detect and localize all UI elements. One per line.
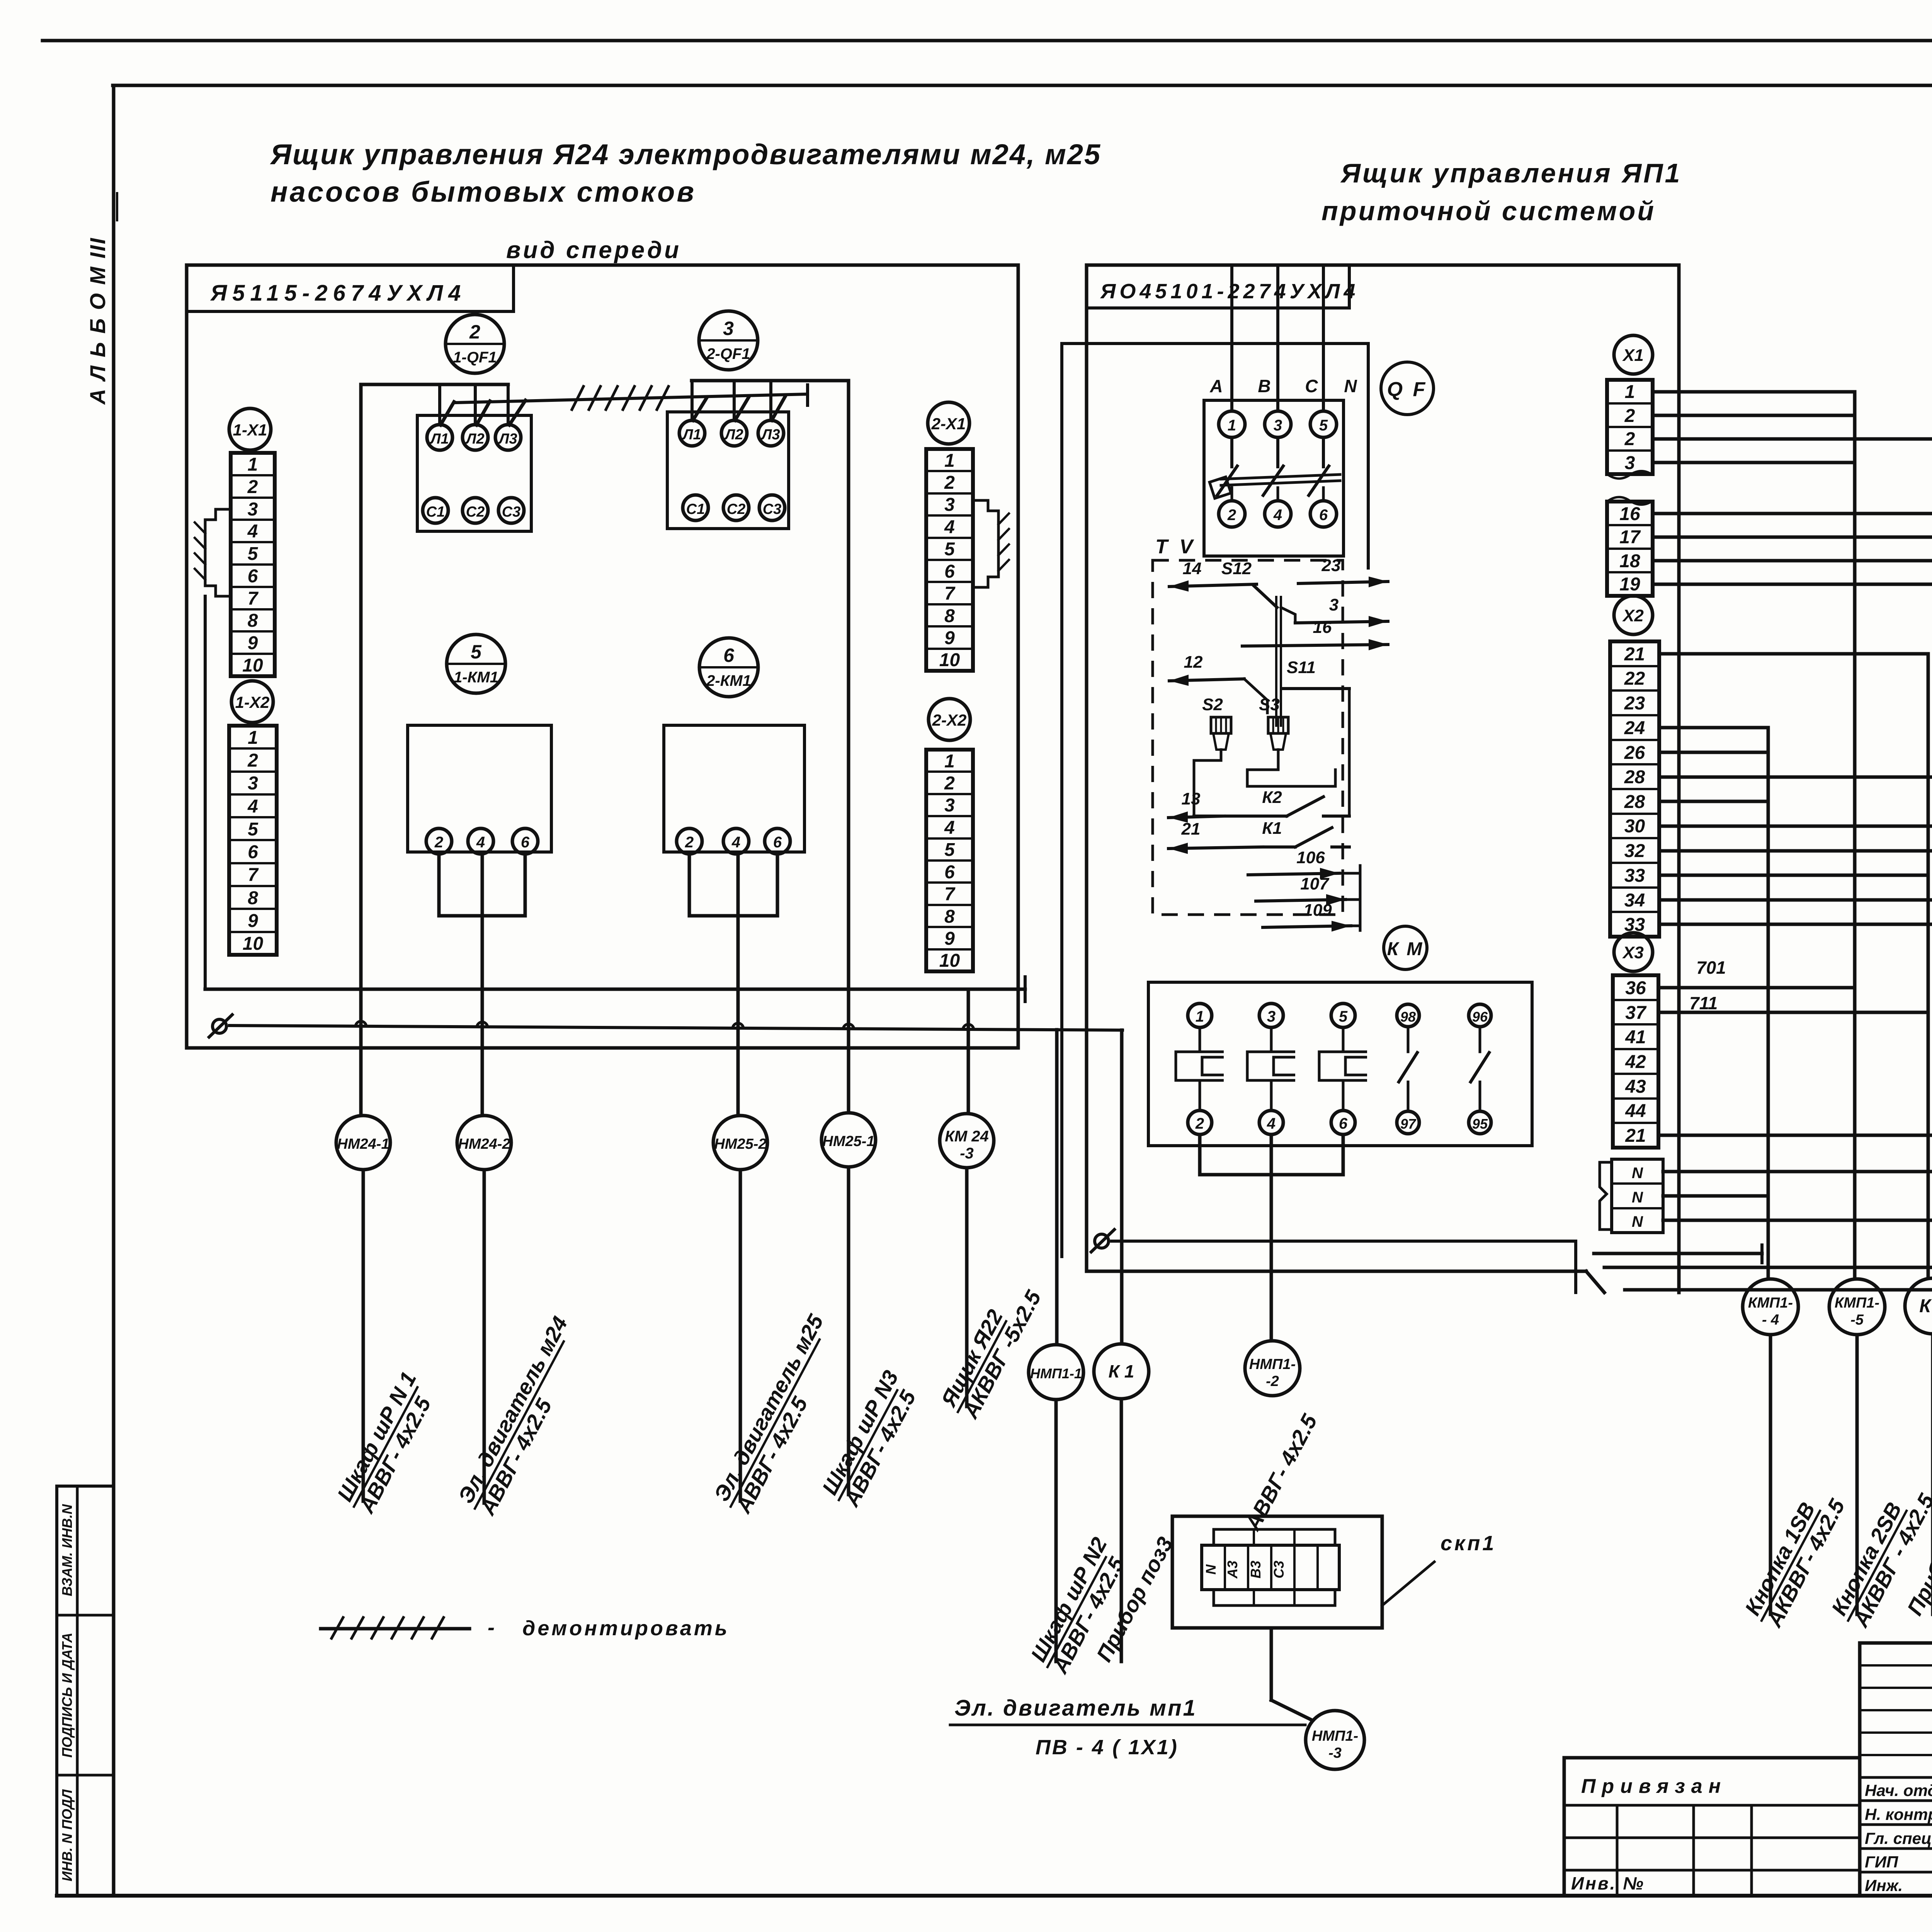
svg-text:97: 97 [1400, 1116, 1417, 1132]
demolition wire with slashes [456, 394, 808, 403]
wire terminal row [1653, 437, 1932, 441]
ground-bus symbol ЯП1 [1095, 1234, 1109, 1248]
box СКП1 [1172, 1516, 1382, 1628]
wire cable КМ24-3 riser [967, 989, 970, 1114]
svg-text:6: 6 [944, 561, 955, 582]
svg-text:6: 6 [1319, 507, 1328, 524]
svg-text:95: 95 [1472, 1116, 1488, 1132]
svg-text:4: 4 [1267, 1115, 1276, 1132]
svg-text:6: 6 [944, 862, 955, 883]
svg-text:ПОДПИСЬ И ДАТА: ПОДПИСЬ И ДАТА [59, 1633, 75, 1758]
svg-text:7: 7 [944, 884, 956, 905]
svg-text:13: 13 [1182, 789, 1201, 808]
svg-text:2-КМ1: 2-КМ1 [706, 672, 751, 689]
pin 4 [1265, 501, 1291, 527]
svg-text:N: N [1344, 376, 1357, 396]
svg-text:23: 23 [1624, 693, 1645, 714]
cable circle НМП1-2 [1245, 1341, 1300, 1396]
cable circle НМП1-3 [1306, 1711, 1364, 1769]
arrow 12 [1169, 679, 1244, 681]
wire terminal row [1659, 652, 1928, 656]
wire terminal row [1653, 414, 1855, 417]
wire cable НМ24-2 riser [481, 854, 484, 1116]
arrow 16 [1242, 645, 1388, 646]
wire cable drop [1931, 1334, 1932, 1614]
svg-text:2: 2 [1624, 406, 1635, 426]
cable label АВВГ НМП1-2 [1240, 1410, 1322, 1535]
svg-text:2-Х2: 2-Х2 [932, 711, 967, 729]
wire exit bus 1 [1594, 1252, 1762, 1255]
svg-text:28: 28 [1624, 767, 1645, 787]
wire ground bus drop [1574, 1241, 1577, 1293]
svg-text:36: 36 [1625, 978, 1646, 998]
svg-text:Инв. №: Инв. № [1571, 1873, 1645, 1893]
position circle 5/1-КМ1 [447, 634, 505, 693]
device circle QF [1381, 362, 1434, 415]
svg-text:Т V: Т V [1155, 536, 1196, 558]
svg-text:С3: С3 [763, 501, 782, 517]
switch blades QF [1221, 474, 1340, 479]
arrow 3 [1295, 621, 1388, 623]
wire terminal row [1653, 512, 1932, 515]
wire drop НМ25-1 [847, 1167, 850, 1495]
cable label Кнопка 1SB [1739, 1483, 1849, 1633]
svg-text:ГИП: ГИП [1865, 1853, 1898, 1871]
terminal strip Х1 upper [1607, 380, 1653, 474]
wire terminal row [1653, 559, 1932, 563]
cable label Шкаф ШРН2 [1025, 1533, 1133, 1679]
svg-text:2-Х1: 2-Х1 [931, 415, 966, 433]
svg-text:КМП1-: КМП1- [1748, 1295, 1793, 1311]
svg-text:4: 4 [1273, 507, 1282, 524]
cable circle НМ24-1 [336, 1116, 390, 1170]
svg-text:44: 44 [1625, 1101, 1646, 1121]
pin 2 [426, 828, 452, 854]
svg-text:16: 16 [1313, 618, 1332, 637]
svg-text:3: 3 [248, 499, 258, 520]
svg-text:9: 9 [248, 633, 258, 653]
switch S12 shaft [1275, 597, 1277, 726]
svg-text:Л2: Л2 [724, 427, 743, 443]
cable circle НМ24-2 [457, 1116, 511, 1170]
arrow 23 [1298, 582, 1388, 583]
svg-text:711: 711 [1689, 993, 1718, 1013]
svg-text:34: 34 [1624, 890, 1645, 911]
pin Л1 [427, 425, 452, 450]
wire feeder 2-QF1 [692, 379, 849, 383]
svg-text:106: 106 [1296, 848, 1325, 867]
СКП1 terminal block [1214, 1529, 1335, 1545]
svg-text:Ящик управления Я24 электро: Ящик управления Я24 электродвигателями м… [270, 138, 1101, 170]
wire drop НМП1-1 [1054, 1400, 1058, 1662]
cable circle НМ25-2 [713, 1116, 767, 1170]
svg-text:2: 2 [434, 834, 443, 851]
svg-text:10: 10 [243, 934, 264, 954]
terminal label circle 2-Х2 [929, 699, 970, 740]
svg-text:- 4: - 4 [1762, 1312, 1779, 1328]
svg-text:10: 10 [939, 951, 960, 971]
svg-text:3: 3 [944, 495, 955, 515]
wire inner bottom bus Я24 [204, 596, 207, 989]
svg-text:19: 19 [1619, 574, 1640, 595]
pin 5 [1331, 1003, 1355, 1027]
cable label Эл.двигатель м25 [708, 1310, 850, 1519]
terminal strip 1-Х1 [231, 453, 275, 676]
svg-text:N: N [1632, 1165, 1643, 1182]
enclosure ЯП1 inner panel line [1062, 344, 1368, 1257]
wire feeder 1-QF1 [361, 383, 508, 386]
svg-text:1: 1 [248, 728, 258, 748]
contactor КМ box [1148, 982, 1532, 1146]
terminal label circle Х1 [1614, 335, 1653, 374]
svg-text:S2: S2 [1202, 695, 1223, 714]
svg-text:КМП1-: КМП1- [1835, 1295, 1879, 1311]
wire drop К1 [1120, 1399, 1123, 1662]
svg-text:-: - [488, 1616, 495, 1639]
pin 6 [1310, 501, 1337, 527]
svg-text:Х3: Х3 [1622, 943, 1644, 962]
pin 95 [1469, 1111, 1491, 1134]
terminal strip N [1612, 1159, 1663, 1233]
frame bottom line [57, 1894, 1932, 1898]
wire terminal row [1663, 1219, 1932, 1222]
wire cable bus vertical [1767, 728, 1770, 1279]
pin 3 [1265, 411, 1291, 437]
title block staff table [1860, 1643, 1932, 1896]
wire terminal row [1653, 583, 1932, 586]
svg-text:К М: К М [1387, 939, 1424, 959]
wire СКП1 exit [1270, 1628, 1273, 1700]
svg-text:Гл. спец.: Гл. спец. [1865, 1829, 1932, 1847]
svg-text:4: 4 [944, 517, 955, 537]
pin 6 [765, 828, 790, 854]
svg-text:37: 37 [1625, 1003, 1647, 1023]
wire terminal row [1659, 849, 1932, 853]
svg-text:НМП1-: НМП1- [1312, 1728, 1358, 1744]
svg-text:22: 22 [1624, 668, 1645, 689]
svg-text:33: 33 [1624, 866, 1645, 886]
connector bracket N [1600, 1162, 1612, 1230]
wire terminal row [1659, 825, 1932, 828]
svg-text:К1: К1 [1262, 819, 1282, 838]
svg-text:НМ24-2: НМ24-2 [458, 1136, 510, 1152]
svg-text:6: 6 [248, 842, 258, 862]
svg-text:3: 3 [944, 795, 955, 816]
pin 1 [1188, 1003, 1212, 1027]
wire cable К1 riser [1120, 1030, 1124, 1344]
svg-text:5: 5 [248, 544, 259, 564]
cable circle НМП1-1 [1029, 1345, 1083, 1400]
title block Привязан box [1564, 1758, 1860, 1896]
svg-text:17: 17 [1619, 527, 1641, 548]
svg-text:8: 8 [944, 906, 955, 927]
cable label Шкаф ШРН3 [816, 1366, 925, 1512]
terminal label circle Х3 [1614, 933, 1653, 971]
aux contact 96-95 [1479, 1027, 1481, 1052]
pin 5 [1310, 411, 1337, 437]
svg-text:ВЗАМ. ИНВ.N: ВЗАМ. ИНВ.N [59, 1504, 75, 1596]
svg-text:6: 6 [723, 645, 735, 666]
svg-text:Л3: Л3 [760, 427, 780, 443]
label box ЯО45101-2274УХЛ4 [1087, 265, 1349, 308]
border top line [43, 39, 1932, 43]
svg-text:8: 8 [944, 606, 955, 626]
svg-text:S12: S12 [1221, 559, 1252, 578]
cable label Прибор поз3 [1092, 1533, 1178, 1665]
wire cable drop [1855, 1335, 1859, 1614]
svg-text:1: 1 [944, 451, 955, 471]
cable circle НМ25-1 [821, 1113, 876, 1167]
svg-text:НМП1-: НМП1- [1249, 1356, 1296, 1372]
pin 2 [1219, 501, 1245, 527]
cable circle КМ24-3 [940, 1114, 994, 1168]
terminal label circle 1-Х2 [231, 681, 273, 723]
svg-text:109: 109 [1303, 901, 1332, 920]
pin 4 [1259, 1111, 1283, 1134]
svg-text:12: 12 [1184, 653, 1203, 672]
wire terminal row [1663, 1194, 1768, 1198]
svg-text:7: 7 [248, 588, 259, 609]
svg-text:А Л Ь Б О М III: А Л Ь Б О М III [85, 237, 110, 405]
pin С2 [723, 495, 749, 520]
svg-text:8: 8 [248, 888, 258, 908]
pin 4 [468, 828, 493, 854]
terminal label circle Х2 [1614, 596, 1653, 634]
wire cable НМП1-2 riser [1270, 1134, 1273, 1341]
pin С1 [683, 495, 708, 520]
leader to скп1 [1382, 1562, 1434, 1605]
svg-text:А3: А3 [1225, 1561, 1240, 1579]
pin 4 [723, 828, 749, 854]
svg-text:А: А [1209, 376, 1223, 396]
svg-text:5: 5 [944, 840, 955, 860]
pin 6 [512, 828, 538, 854]
svg-text:42: 42 [1625, 1052, 1646, 1072]
contactor 2-КМ1 box [664, 725, 804, 852]
device circle КМ [1384, 926, 1427, 969]
svg-text:Я5115-2674УХЛ4: Я5115-2674УХЛ4 [210, 281, 466, 306]
svg-text:2: 2 [685, 834, 694, 851]
svg-text:21: 21 [1181, 820, 1201, 838]
cable label Ящик Я22 [935, 1274, 1046, 1424]
wire S12 jog [1281, 607, 1295, 623]
svg-text:С3: С3 [1271, 1561, 1287, 1578]
wire terminal row [1659, 751, 1768, 754]
svg-text:С1: С1 [686, 501, 705, 517]
wire terminal row [1659, 776, 1932, 779]
wire cable НМ25-2 riser [736, 854, 740, 1116]
svg-text:7: 7 [248, 865, 259, 885]
svg-text:10: 10 [242, 655, 263, 676]
svg-text:вид спереди: вид спереди [506, 237, 681, 264]
wire ground bus Я24 [230, 1026, 1122, 1030]
wire exit bus 3 [1625, 1288, 1932, 1292]
svg-text:Л3: Л3 [498, 431, 517, 447]
wire cable bus vertical [1853, 392, 1857, 1279]
terminal strip 2-Х2 [926, 750, 973, 971]
terminal label circle 1-Х1 [229, 408, 271, 450]
svg-text:К 1: К 1 [1109, 1361, 1134, 1381]
svg-text:4: 4 [731, 834, 740, 851]
wire terminal row [1659, 923, 1932, 926]
svg-text:С2: С2 [466, 504, 485, 520]
enclosure ЯП1 outline [1087, 265, 1679, 1293]
svg-text:3: 3 [248, 773, 258, 794]
svg-text:Л1: Л1 [682, 427, 701, 443]
wire terminal row [1658, 986, 1855, 990]
terminal strip Х2 [1610, 641, 1659, 937]
wire S2-S3 links [1194, 750, 1221, 816]
svg-text:1: 1 [248, 454, 258, 475]
wire drop НМ24-2 [483, 1170, 486, 1503]
svg-text:С1: С1 [426, 504, 445, 520]
svg-text:1: 1 [944, 751, 955, 772]
svg-text:41: 41 [1625, 1027, 1646, 1048]
svg-text:1-Х2: 1-Х2 [235, 693, 270, 711]
svg-text:Н. контр: Н. контр [1865, 1805, 1932, 1823]
svg-text:16: 16 [1619, 504, 1640, 524]
svg-text:2-QF1: 2-QF1 [706, 345, 750, 362]
svg-text:3: 3 [723, 318, 734, 339]
left stamp column boxes [57, 1486, 114, 1896]
svg-text:3: 3 [1274, 417, 1282, 434]
terminal label circle 2-Х1 [928, 402, 969, 444]
wire ground bus ЯП1 [1112, 1240, 1576, 1243]
wire terminal row [1653, 536, 1932, 539]
svg-text:1-QF1: 1-QF1 [453, 349, 497, 366]
legend demolition [321, 1627, 469, 1631]
svg-text:-2: -2 [1266, 1373, 1279, 1389]
pin Л3 [495, 425, 521, 450]
svg-text:26: 26 [1624, 743, 1645, 763]
wire exit bus 2 [1604, 1266, 1932, 1269]
svg-text:НМ24-1: НМ24-1 [337, 1136, 389, 1152]
svg-text:НМП1-1: НМП1-1 [1030, 1366, 1082, 1381]
pin 2 [1188, 1111, 1212, 1134]
svg-text:701: 701 [1696, 957, 1726, 978]
svg-text:5: 5 [944, 539, 955, 560]
svg-text:Q F: Q F [1387, 378, 1428, 401]
aux contact 98-97 [1407, 1027, 1410, 1052]
svg-text:4: 4 [944, 818, 955, 838]
svg-text:S11: S11 [1287, 658, 1316, 677]
terminal strip Х3 [1613, 975, 1658, 1148]
wire terminal row [1659, 874, 1928, 877]
terminal strip 1-Х2 [229, 726, 277, 955]
wire terminal row [1659, 726, 1768, 730]
cable label Кнопка 2SB [1825, 1478, 1932, 1633]
svg-text:1-Х1: 1-Х1 [233, 421, 267, 439]
cable label Эл.двигатель м24 [452, 1313, 594, 1521]
svg-text:-5: -5 [1850, 1312, 1864, 1328]
svg-text:скп1: скп1 [1440, 1532, 1496, 1555]
svg-text:2: 2 [247, 750, 258, 771]
wire terminal row [1653, 461, 1855, 464]
svg-text:1: 1 [1228, 417, 1236, 434]
breaker 2-QF1 box [667, 412, 789, 529]
svg-text:5: 5 [471, 641, 482, 663]
wire cable bus vertical [1927, 654, 1930, 1278]
svg-text:В: В [1258, 376, 1270, 396]
terminal strip 2-Х1 [926, 449, 973, 671]
svg-text:С: С [1305, 376, 1318, 396]
svg-text:24: 24 [1624, 718, 1645, 738]
svg-text:6: 6 [248, 566, 258, 587]
svg-text:4: 4 [476, 834, 485, 851]
svg-text:S3: S3 [1259, 695, 1280, 714]
pin 96 [1469, 1004, 1491, 1027]
svg-text:2: 2 [944, 773, 955, 794]
svg-text:4: 4 [247, 521, 258, 542]
pin С2 [463, 498, 488, 523]
position circle 6/2-КМ1 [699, 638, 758, 697]
pin С3 [498, 498, 524, 523]
svg-text:1: 1 [1196, 1008, 1204, 1025]
cable circle КМП1-4 [1743, 1279, 1798, 1335]
wire drop КМ24-3 [965, 1168, 969, 1406]
wire terminal row [1659, 898, 1932, 902]
svg-text:Инж.: Инж. [1865, 1876, 1903, 1895]
wire terminal row [1663, 1170, 1932, 1173]
svg-text:21: 21 [1625, 1126, 1646, 1146]
wire cable drop [1769, 1335, 1772, 1614]
ground-bus symbol Я24 [213, 1019, 226, 1033]
svg-text:9: 9 [944, 929, 955, 949]
wire cable НМП1-1 riser [1055, 1030, 1059, 1345]
svg-text:9: 9 [248, 911, 258, 931]
wire U-loop КМ [1200, 1134, 1343, 1175]
svg-text:1-КМ1: 1-КМ1 [454, 669, 498, 686]
cable circle К1 [1094, 1344, 1149, 1399]
svg-text:-3: -3 [960, 1145, 974, 1162]
svg-text:4: 4 [247, 796, 258, 817]
svg-text:3: 3 [1625, 453, 1635, 473]
svg-text:N: N [1203, 1564, 1219, 1575]
pin 97 [1397, 1111, 1419, 1134]
svg-text:ПВ - 4 ( 1Х1): ПВ - 4 ( 1Х1) [1036, 1736, 1179, 1759]
svg-text:1: 1 [1625, 382, 1635, 402]
contactor 1-КМ1 box [408, 725, 551, 852]
pin 6 [1331, 1111, 1355, 1134]
svg-text:6: 6 [773, 834, 782, 851]
wire cable НМ24-1 riser [359, 384, 363, 1116]
svg-text:28: 28 [1624, 792, 1645, 812]
breaker QF box [1204, 400, 1344, 556]
svg-text:Х1: Х1 [1622, 346, 1644, 365]
label box Я5115-2674УХЛ4 [187, 265, 514, 311]
svg-text:С2: С2 [727, 501, 746, 517]
pin 2 [677, 828, 702, 854]
svg-text:приточной системой: приточной системой [1321, 196, 1656, 226]
svg-text:демонтировать: демонтировать [522, 1617, 730, 1640]
frame top line [113, 84, 1932, 87]
svg-text:Л2: Л2 [465, 431, 484, 447]
svg-text:98: 98 [1400, 1009, 1416, 1025]
svg-text:ИНВ. N ПОДЛ: ИНВ. N ПОДЛ [59, 1789, 75, 1881]
svg-text:Привязан: Привязан [1581, 1775, 1727, 1798]
wire terminal row [1658, 1134, 1932, 1137]
pin Л1 [679, 420, 705, 446]
svg-text:В3: В3 [1248, 1561, 1264, 1578]
cable label Прибор поз 2 [1902, 1476, 1932, 1619]
wire terminal row [1653, 390, 1855, 394]
frame left line [112, 85, 116, 1896]
wire drop НМ24-1 [362, 1170, 365, 1501]
svg-text:8: 8 [248, 611, 258, 631]
connector bracket 1-Х1 [205, 509, 231, 596]
svg-text:96: 96 [1472, 1009, 1488, 1025]
svg-text:N: N [1632, 1189, 1643, 1206]
